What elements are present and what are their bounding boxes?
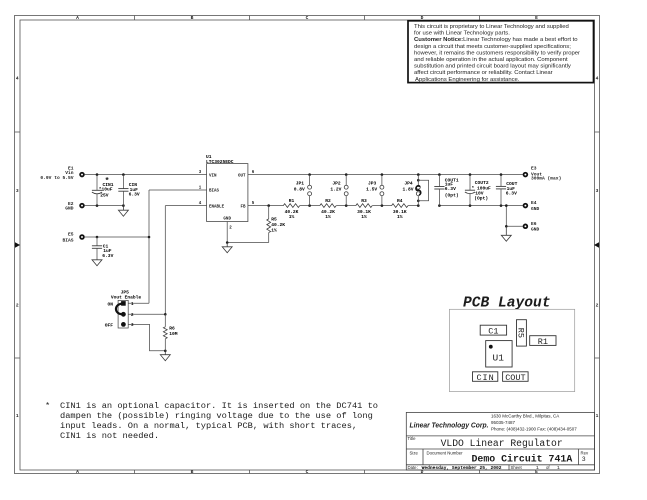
svg-text:LTC3025EDC: LTC3025EDC [206,159,234,165]
junction R6/ground [164,350,167,353]
TERMINALS [79,172,528,240]
svg-text:A: A [76,15,79,21]
svg-text:4: 4 [596,76,599,82]
PCB part C1 [480,325,506,336]
svg-text:R6: R6 [169,326,175,332]
svg-text:C1: C1 [488,327,498,337]
svg-text:VIN: VIN [209,174,217,178]
ground under R6 [160,351,170,361]
node E1 Vin labels [40,165,73,181]
wire JP5 pin2 stub [128,313,165,315]
capacitor CIN1 (electrolytic, optional) [92,175,114,206]
svg-text:Wednesday, September 25, 2002: Wednesday, September 25, 2002 [422,465,502,471]
junction JP4 shunt top [417,179,420,182]
svg-text:COUT: COUT [505,373,525,383]
svg-text:E4: E4 [531,200,537,206]
svg-text:CIN: CIN [476,373,494,383]
svg-text:design a circuit that meets cu: design a circuit that meets customer-sup… [414,44,571,50]
sheet inner border [20,20,595,470]
svg-text:Vin: Vin [65,170,74,176]
svg-text:OFF: OFF [105,322,114,328]
wire E6 stub [506,225,522,227]
ground under CIN [118,206,128,217]
zone tick right 3 [595,357,600,359]
wire BIAS vertical to JP5 pin1 [148,190,150,303]
svg-text:1: 1 [596,413,599,419]
svg-text:6.3V: 6.3V [445,186,456,192]
PCB part COUT [503,372,528,383]
svg-text:OUT: OUT [238,174,246,178]
node E5 BIAS labels [62,232,73,244]
svg-text:1%: 1% [289,214,295,220]
svg-text:C: C [306,15,309,21]
svg-text:6.3V: 6.3V [506,190,517,196]
wire VIN net E1 to U1 [85,174,207,176]
svg-text:B: B [191,469,194,475]
jumper JP4 1.8V (shunt installed) [402,175,428,206]
wire JP5 pin1 stub [128,302,149,304]
PCB part U1 [486,341,512,367]
zone tick left 1 [15,131,21,133]
svg-text:1.8V: 1.8V [402,187,413,193]
svg-text:(Opt): (Opt) [445,193,459,199]
svg-text:0.8V: 0.8V [294,187,305,193]
ground under U1 GND pin [222,243,232,253]
junction GNDrail/COUT [500,204,503,207]
svg-text:10V: 10V [475,190,484,196]
junction OUT/JP2 [345,173,348,176]
zone tick top 3 [364,16,366,21]
ground at E6 [501,226,511,241]
svg-text:*: * [45,401,50,411]
svg-text:1%: 1% [361,214,367,220]
zone tick bottom 1 [134,470,136,474]
jumper JP1 0.8V [294,175,312,206]
fold mark right [594,242,599,248]
resistor R4 30.1K [392,198,408,220]
resistor R6 10M (vertical) [163,314,177,351]
junction FB/JP1 [308,204,311,207]
svg-text:Linear Technology Corp.: Linear Technology Corp. [410,423,489,430]
wire GND right rail COUT1 to E4 [439,205,522,207]
svg-text:input leads. On a normal, typi: input leads. On a normal, typical PCB, w… [60,421,357,431]
title block outline [406,412,594,470]
zone tick top 2 [249,16,251,21]
svg-text:1%: 1% [325,214,331,220]
svg-text:A: A [76,469,79,475]
svg-text:300mA (max): 300mA (max) [531,176,561,182]
svg-text:This circuit is proprietary to: This circuit is proprietary to Linear Te… [414,24,569,30]
junction FB/R5 [267,204,270,207]
terminal E5 [79,234,85,240]
svg-text:GND: GND [531,226,540,232]
jumper JP3 1.5V [366,175,384,206]
junction OUT/JP1 [308,173,311,176]
svg-text:Rev: Rev [581,450,589,455]
svg-text:Document Number: Document Number [427,451,464,456]
junction VIN/CIN1 [96,173,99,176]
svg-text:JP4: JP4 [404,181,413,187]
svg-text:3: 3 [582,456,586,463]
svg-text:affect circuit performance or: affect circuit performance or reliabilit… [414,70,553,76]
svg-text:substitution and printed circu: substitution and printed circuit board l… [414,64,571,70]
svg-text:R2: R2 [325,198,331,204]
svg-text:however, it remains the custom: however, it remains the customers respon… [414,50,580,56]
svg-text:Sheet: Sheet [511,465,523,470]
svg-text:1.2V: 1.2V [330,187,341,193]
svg-text:GND: GND [531,206,540,212]
svg-text:JP2: JP2 [332,181,341,187]
note about CIN1 [45,401,378,441]
wire GND left rail E2 to CIN [85,205,124,207]
svg-text:Demo Circuit 741A: Demo Circuit 741A [472,454,573,465]
JUNCTION DOTS [96,173,508,352]
op-amp U1 LTC3025EDC body [206,154,248,221]
capacitor COUT2 (electrolytic, optional) [465,175,491,206]
svg-text:Title: Title [408,436,417,441]
svg-text:3: 3 [596,188,599,194]
svg-text:95035-7487: 95035-7487 [491,420,516,425]
junction JP4 shunt bottom [417,200,420,203]
svg-text:JP1: JP1 [296,181,305,187]
junction FB/JP2 [345,204,348,207]
PCB layout board outline [449,309,574,391]
svg-text:R5: R5 [271,217,277,223]
fold mark left [15,242,20,248]
wire ENABLE from U1 pin4 [165,205,206,207]
junction OUT/JP4 [417,173,420,176]
svg-text:*10uF: *10uF [99,187,113,193]
svg-text:1630 McCarthy Blvd., Milpitas,: 1630 McCarthy Blvd., Milpitas, CA [491,413,559,418]
junction U1GND/R5 [226,241,229,244]
junction OUT/COUT1 [438,173,441,176]
svg-text:CIN1 is not needed.: CIN1 is not needed. [60,431,159,441]
svg-text:1.5V: 1.5V [366,187,377,193]
wire BIAS net E5 [85,236,149,238]
wire U1 GND stem [226,222,228,243]
wire BIAS to U1 pin1 [149,189,207,191]
junction ENABLE/R6 [164,313,167,316]
junction OUT/COUT2 [469,173,472,176]
svg-text:GND: GND [223,218,231,222]
svg-text:Vout Enable: Vout Enable [111,295,142,301]
svg-text:R3: R3 [361,198,367,204]
PCB part R1 [530,336,556,347]
svg-text:and reliable operation in the: and reliable operation in the actual app… [414,57,568,63]
zone tick left 3 [15,357,21,359]
jumper JP2 1.2V [330,175,348,206]
svg-text:CIN1 is an optional capacitor.: CIN1 is an optional capacitor. It is ins… [60,401,378,411]
svg-text:of: of [546,465,550,470]
svg-text:JP5: JP5 [121,289,130,295]
terminal E2 [79,203,85,209]
svg-text:VLDO Linear Regulator: VLDO Linear Regulator [441,438,563,449]
company address [491,413,577,431]
zone tick bottom 3 [364,470,366,474]
capacitor CIN [118,175,140,206]
svg-text:for use with Linear Technology: for use with Linear Technology parts. [414,31,510,37]
wire OUT net U1 to E3 [248,174,523,176]
svg-text:1: 1 [16,413,19,419]
PCB part CIN [473,372,498,383]
svg-text:ON: ON [107,301,113,307]
wire U1 GND to R5 bottom [227,242,269,244]
svg-text:Applications Engineering for a: Applications Engineering for assistance. [415,77,520,83]
junction GND/CIN1 [96,204,99,207]
svg-text:Size: Size [410,451,419,456]
junction OUT/COUT [500,173,503,176]
zone tick bottom 4 [479,470,481,474]
wire ENABLE vertical to JP5 pin2 [164,206,166,315]
wire E6 branch vertical [505,206,507,227]
resistor R3 30.1K [356,198,372,220]
capacitor COUT [496,175,518,206]
svg-text:GND: GND [65,206,74,212]
svg-text:1%: 1% [271,227,277,233]
capacitor C1 [92,237,114,260]
svg-text:4: 4 [16,76,19,82]
svg-text:2: 2 [596,303,599,309]
svg-text:C: C [306,469,309,475]
svg-text:2: 2 [16,303,19,309]
svg-text:R4: R4 [397,198,403,204]
svg-text:6.3V: 6.3V [102,253,113,259]
svg-text:(Opt): (Opt) [474,195,488,201]
svg-text:E5: E5 [68,232,74,238]
resistor R5 40.2K (vertical) [267,206,285,243]
svg-text:COUT2: COUT2 [475,180,489,186]
junction GNDrail/COUT1 [438,204,441,207]
disclaimer box [408,21,594,83]
svg-text:ENABLE: ENABLE [209,205,225,209]
junction GNDrail/E6 [505,204,508,207]
svg-text:E3: E3 [531,165,537,171]
terminal E6 [523,224,529,230]
junction BIAS/E5 tee [148,236,151,239]
svg-text:FB: FB [240,205,246,209]
zone tick left 2 [15,244,21,246]
svg-text:BIAS: BIAS [209,190,220,194]
svg-text:3: 3 [16,188,19,194]
svg-text:U1: U1 [493,353,505,364]
terminal E4 [523,203,529,209]
SCHEMATIC [85,175,523,351]
svg-text:2: 2 [229,227,232,231]
resistor R2 40.2K [320,198,336,220]
node E2 GND labels [65,201,74,212]
svg-text:E6: E6 [531,221,537,227]
svg-text:1: 1 [557,465,560,471]
junction BIAS/C1 [96,236,99,239]
svg-text:R1: R1 [538,337,548,347]
terminal E3 [523,172,529,178]
junction VIN/CIN [122,173,125,176]
jumper JP5 Vout Enable (shunt on 1-2) [105,289,142,328]
svg-text:25V: 25V [100,192,109,198]
zone tick top 4 [479,16,481,21]
svg-text:R1: R1 [289,198,295,204]
svg-text:B: B [191,15,194,21]
svg-text:Date:: Date: [408,465,418,470]
junction FB/JP4 [417,204,420,207]
terminal E1 [79,172,85,178]
node E3 Vout labels [531,165,561,181]
zone tick bottom 2 [249,470,251,474]
svg-text:0.9V to 5.5V: 0.9V to 5.5V [40,175,73,181]
svg-text:40.2K: 40.2K [271,222,285,228]
wire JP5 pin3 to ground run [128,324,165,350]
node E4 GND labels [531,200,540,212]
junction GNDrail/COUT2 [469,204,472,207]
PCB part R5 [516,320,527,346]
svg-text:BIAS: BIAS [62,238,73,244]
svg-text:6.3V: 6.3V [129,192,140,198]
wire FB net segments [248,205,283,207]
svg-text:dampen the (possible) ringing: dampen the (possible) ringing voltage du… [60,411,373,421]
zone tick right 2 [595,244,600,246]
svg-text:Customer Notice:Linear Technol: Customer Notice:Linear Technology has ma… [414,37,578,43]
junction OUT/JP3 [381,173,384,176]
svg-text:1%: 1% [397,214,403,220]
svg-text:10M: 10M [169,331,178,337]
junction GND/CIN [122,204,125,207]
zone tick top 1 [134,16,136,21]
svg-text:1: 1 [536,465,539,471]
capacitor COUT1 (optional) [434,175,459,206]
zone tick right 1 [595,131,600,133]
junction FB/JP3 [381,204,384,207]
node E6 GND labels [531,221,540,233]
svg-text:Phone: (408)432-1900 Fax: (408: Phone: (408)432-1900 Fax: (408)434-0507 [491,426,577,431]
svg-text:R5: R5 [516,328,526,338]
junction E6/ground [505,225,508,228]
resistor R1 40.2K [283,198,299,220]
ground under C1 [92,260,102,266]
svg-text:JP3: JP3 [368,181,377,187]
